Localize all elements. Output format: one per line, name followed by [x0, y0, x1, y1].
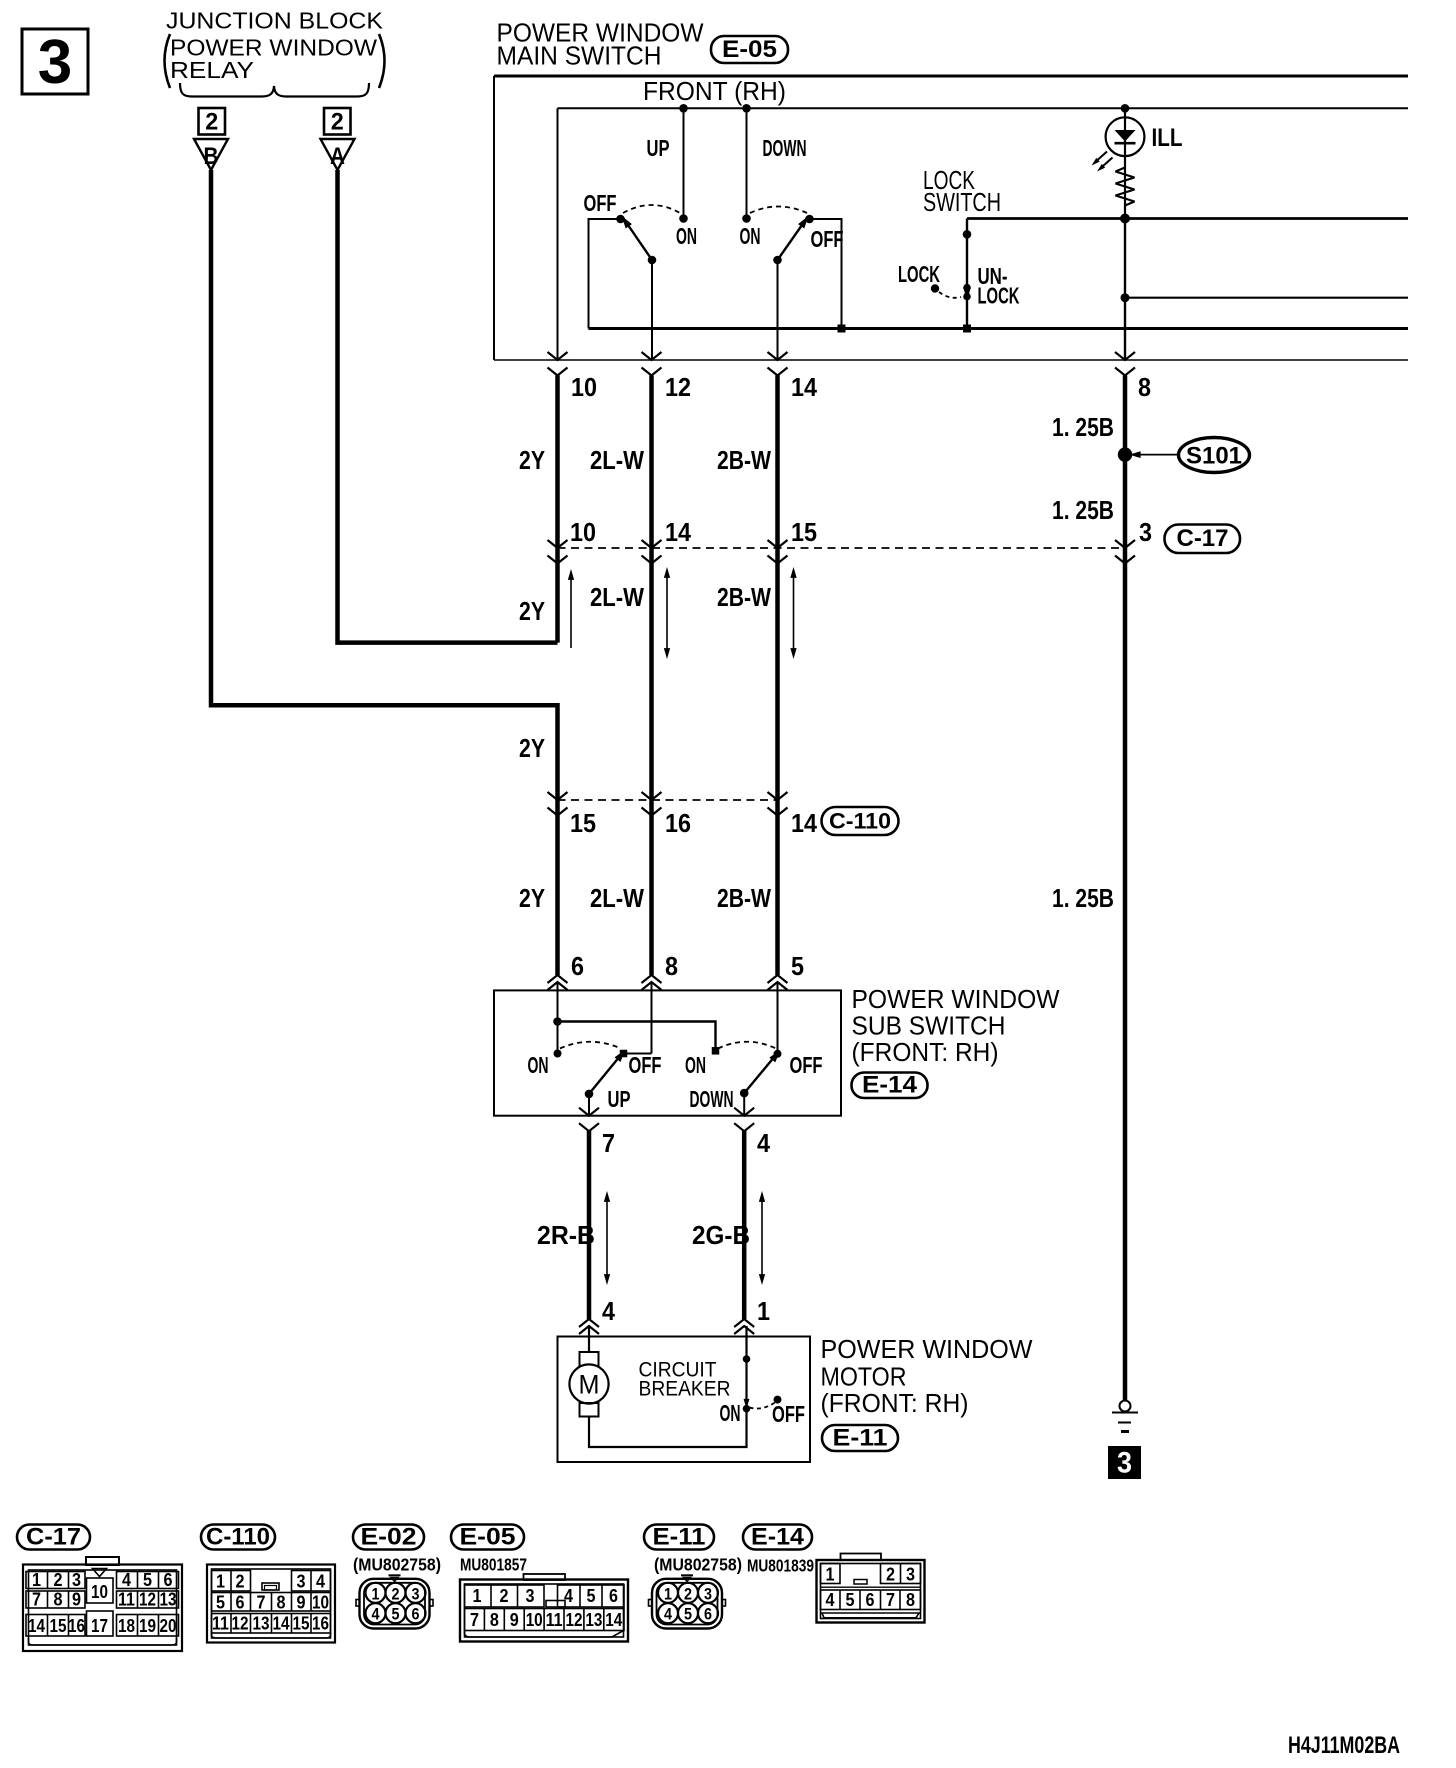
svg-text:15: 15 [570, 808, 596, 838]
svg-text:MOTOR: MOTOR [821, 1362, 907, 1392]
svg-text:C-110: C-110 [829, 809, 891, 834]
svg-text:4: 4 [757, 1128, 770, 1158]
svg-text:8: 8 [277, 1593, 286, 1613]
sub junction dot [553, 1017, 562, 1026]
svg-text:(MU802758): (MU802758) [654, 1555, 742, 1575]
sub exit chevrons [579, 1108, 599, 1132]
svg-text:9: 9 [297, 1593, 306, 1613]
svg-text:MU801839: MU801839 [747, 1556, 814, 1576]
C-17 inline connector dashed line [558, 547, 1126, 549]
svg-text:3: 3 [526, 1586, 535, 1606]
svg-text:11: 11 [118, 1590, 135, 1610]
C-110 crossing chevron [548, 792, 568, 816]
lock switch feed line [967, 217, 1408, 220]
svg-text:1: 1 [32, 1570, 41, 1590]
svg-text:4: 4 [316, 1572, 325, 1592]
ground symbol [1120, 1401, 1131, 1412]
S101 pointer [1136, 454, 1179, 456]
svg-text:ON: ON [528, 1052, 549, 1078]
svg-text:5: 5 [392, 1605, 400, 1624]
left switch arm [628, 225, 652, 260]
lock switch contacts [963, 284, 971, 292]
svg-text:8: 8 [490, 1610, 499, 1630]
svg-text:10: 10 [570, 517, 596, 547]
svg-text:15: 15 [293, 1614, 310, 1634]
motor brush bottom [580, 1403, 599, 1417]
svg-text:ON: ON [676, 223, 697, 249]
svg-text:ON: ON [685, 1052, 706, 1078]
svg-text:MU801857: MU801857 [460, 1555, 527, 1575]
C-110 middle tab [262, 1583, 279, 1590]
svg-text:MAIN SWITCH: MAIN SWITCH [497, 41, 662, 71]
up arrow 2Y [570, 578, 572, 648]
C-110 row2/3 grid [212, 1593, 331, 1612]
svg-text:(FRONT: RH): (FRONT: RH) [852, 1037, 999, 1067]
svg-text:JUNCTION BLOCK: JUNCTION BLOCK [166, 8, 384, 34]
svg-text:2Y: 2Y [519, 445, 545, 475]
svg-text:2: 2 [331, 109, 344, 136]
ILL lamp wire top [1124, 108, 1126, 218]
svg-text:5: 5 [587, 1586, 596, 1606]
E-14 connector body [841, 1554, 882, 1561]
svg-text:13: 13 [160, 1590, 177, 1610]
E-14 row2 cells [821, 1590, 921, 1610]
E-14 row1 cells [821, 1564, 841, 1584]
svg-text:8: 8 [665, 951, 678, 981]
C-17 middle cells [87, 1578, 114, 1603]
E-05 skirt [465, 1631, 624, 1638]
E-05 capsule top [711, 36, 788, 63]
LED triangle [1115, 130, 1136, 142]
svg-text:12: 12 [665, 372, 691, 402]
svg-text:DOWN: DOWN [763, 135, 807, 161]
pin 12 exit chevron [642, 352, 662, 376]
svg-text:7: 7 [470, 1610, 479, 1630]
svg-text:7: 7 [602, 1128, 615, 1158]
svg-text:13: 13 [585, 1610, 602, 1630]
sub left OFF contact [624, 1053, 652, 1055]
svg-text:4: 4 [602, 1296, 615, 1326]
main switch box bottom edge [494, 359, 1408, 361]
svg-text:11: 11 [546, 1610, 563, 1630]
svg-text:15: 15 [50, 1616, 67, 1636]
svg-text:OFF: OFF [772, 1401, 805, 1427]
svg-text:1. 25B: 1. 25B [1052, 883, 1114, 913]
svg-text:3: 3 [704, 1584, 712, 1603]
svg-text:2Y: 2Y [519, 733, 545, 763]
svg-text:14: 14 [791, 808, 817, 838]
E-05 row1 cells [465, 1585, 545, 1607]
svg-text:1: 1 [216, 1572, 225, 1592]
main switch box top edge [494, 75, 1408, 78]
sub left arm [589, 1059, 618, 1094]
LED cathode bar [1115, 142, 1136, 145]
switch common bus (thick) [589, 327, 1409, 330]
C-17 crossing chevron [1115, 540, 1135, 564]
svg-text:3: 3 [1117, 1447, 1132, 1480]
svg-text:1: 1 [473, 1586, 482, 1606]
resistor [1116, 168, 1135, 211]
ILL wire to pin8 [1124, 219, 1126, 361]
svg-text:E-05: E-05 [722, 36, 777, 63]
motor circle M [569, 1364, 608, 1403]
svg-text:2L-W: 2L-W [590, 445, 644, 475]
svg-text:16: 16 [68, 1616, 85, 1636]
S101 junction dot [1118, 447, 1132, 461]
svg-text:ON: ON [740, 223, 761, 249]
breaker dashed arc [750, 1403, 776, 1409]
lock dashed arc [939, 292, 961, 298]
svg-text:9: 9 [510, 1610, 519, 1630]
svg-text:2G-B: 2G-B [692, 1220, 750, 1250]
svg-text:16: 16 [312, 1614, 329, 1634]
svg-text:7: 7 [32, 1590, 41, 1610]
lock switch wire [966, 219, 968, 329]
pin 14 exit chevron [768, 352, 788, 376]
svg-text:1: 1 [757, 1296, 770, 1326]
right switch dashed arc [750, 207, 807, 214]
svg-text:2: 2 [392, 1584, 400, 1603]
svg-text:12: 12 [139, 1590, 156, 1610]
svg-text:E-14: E-14 [751, 1524, 805, 1551]
S101 ellipse [1179, 438, 1250, 473]
curly brace [180, 83, 369, 97]
wire 2R-B [587, 1131, 592, 1319]
svg-text:3: 3 [297, 1572, 306, 1592]
svg-text:4: 4 [122, 1570, 131, 1590]
breaker OFF contact [774, 1396, 782, 1404]
C-110 skirt [212, 1633, 331, 1638]
updown arrow 2L-W [666, 576, 668, 650]
svg-text:ILL: ILL [1152, 124, 1183, 152]
svg-text:C-17: C-17 [1177, 525, 1229, 552]
svg-text:OFF: OFF [811, 226, 844, 252]
svg-text:2Y: 2Y [519, 883, 545, 913]
C-17 skirt [29, 1638, 177, 1645]
E-11 capsule [822, 1425, 898, 1451]
motor right wire [745, 1326, 747, 1404]
svg-text:7: 7 [257, 1593, 266, 1613]
svg-text:13: 13 [253, 1614, 270, 1634]
svg-text:E-14: E-14 [862, 1072, 918, 1099]
svg-text:(MU802758): (MU802758) [353, 1555, 441, 1575]
svg-text:3: 3 [412, 1584, 420, 1603]
svg-text:FRONT (RH): FRONT (RH) [643, 76, 786, 106]
svg-text:12: 12 [566, 1610, 583, 1630]
svg-text:ON: ON [720, 1400, 741, 1426]
svg-text:6: 6 [571, 951, 584, 981]
terminal triangle A [321, 139, 355, 170]
LOCK position dot [931, 284, 939, 292]
svg-text:6: 6 [236, 1593, 245, 1613]
node resistor-bottom [1120, 214, 1130, 224]
motor left wire [588, 1326, 590, 1352]
svg-text:1: 1 [664, 1584, 672, 1603]
svg-text:10: 10 [526, 1610, 543, 1630]
sub switch box [494, 990, 841, 1115]
svg-text:8: 8 [54, 1590, 63, 1610]
terminal triangle B [194, 139, 228, 170]
svg-text:2L-W: 2L-W [590, 582, 644, 612]
svg-text:2: 2 [205, 109, 218, 136]
svg-text:1. 25B: 1. 25B [1052, 495, 1114, 525]
svg-text:2: 2 [54, 1570, 63, 1590]
E-05 row2 cells [465, 1609, 625, 1631]
left switch dashed arc [623, 205, 680, 213]
E-11 connector body [652, 1579, 722, 1629]
E-05 mid tab [546, 1601, 565, 1608]
svg-text:2L-W: 2L-W [590, 883, 644, 913]
svg-text:6: 6 [164, 1570, 173, 1590]
sub right OFF contact [774, 1050, 782, 1058]
C-17 crossing chevron [548, 540, 568, 564]
svg-text:14: 14 [605, 1610, 622, 1630]
LED emission arrows [1098, 152, 1108, 161]
C-17 crossing chevron [768, 540, 788, 564]
pin 10 exit chevron [548, 352, 568, 376]
sub left ON contact [554, 1050, 562, 1058]
connector 2B square [199, 108, 226, 135]
wire 2L-W trunk [649, 376, 654, 976]
C-110 capsule [822, 807, 899, 835]
svg-text:2R-B: 2R-B [537, 1220, 595, 1250]
right switch arm [778, 225, 803, 260]
svg-text:20: 20 [160, 1616, 177, 1636]
svg-text:DOWN: DOWN [690, 1086, 734, 1112]
big parentheses [165, 34, 171, 88]
motor bottom link [589, 1409, 747, 1447]
sub moving wires [588, 1094, 590, 1116]
svg-text:4: 4 [826, 1590, 835, 1610]
branch line y297 [1125, 297, 1408, 299]
svg-text:11: 11 [212, 1614, 229, 1634]
sub right dashed arc [718, 1042, 776, 1049]
sub wires into box [557, 982, 559, 1054]
sub left dashed arc [560, 1042, 621, 1049]
sub switch entry chevrons [548, 975, 568, 990]
svg-text:4: 4 [564, 1586, 573, 1606]
updown arrow 2B-W [793, 576, 795, 650]
C-110 bottom capsule [201, 1525, 275, 1550]
svg-text:14: 14 [665, 517, 691, 547]
UP contact wire [683, 108, 685, 218]
svg-text:UP: UP [647, 135, 670, 161]
svg-text:2: 2 [500, 1586, 509, 1606]
svg-text:4: 4 [664, 1605, 672, 1624]
svg-text:2B-W: 2B-W [717, 445, 771, 475]
svg-text:14: 14 [273, 1614, 290, 1634]
E-14 capsule [852, 1073, 928, 1099]
svg-text:18: 18 [118, 1616, 135, 1636]
svg-text:C-17: C-17 [26, 1524, 81, 1551]
svg-text:C-110: C-110 [206, 1524, 270, 1551]
svg-text:8: 8 [1138, 372, 1151, 402]
svg-text:B: B [204, 143, 219, 170]
svg-text:2: 2 [886, 1565, 895, 1585]
svg-text:15: 15 [791, 517, 817, 547]
E-14 bottom capsule [743, 1525, 812, 1550]
C-110 crossing chevron [642, 792, 662, 816]
motor box [558, 1337, 811, 1463]
wire B [211, 170, 558, 975]
svg-text:10: 10 [571, 372, 597, 402]
sub right arm [744, 1059, 773, 1094]
page index box 3 [22, 29, 88, 94]
svg-text:5: 5 [216, 1593, 225, 1613]
motor entry chevrons [579, 1319, 599, 1334]
svg-text:SWITCH: SWITCH [923, 187, 1001, 217]
svg-text:2: 2 [684, 1584, 692, 1603]
svg-text:10: 10 [312, 1593, 329, 1613]
svg-text:2B-W: 2B-W [717, 883, 771, 913]
svg-text:M: M [579, 1370, 600, 1400]
svg-text:E-02: E-02 [361, 1524, 417, 1551]
svg-text:16: 16 [665, 808, 691, 838]
svg-text:19: 19 [139, 1616, 156, 1636]
right switch OFF leg [810, 219, 842, 329]
C-110 row1 cells [212, 1571, 251, 1592]
E-02 bottom capsule [353, 1525, 424, 1550]
main switch box left edge [493, 76, 495, 360]
svg-text:2: 2 [236, 1572, 245, 1592]
connector 2A square [324, 108, 351, 135]
wire 1.25B trunk [1123, 376, 1128, 1401]
svg-text:LOCK: LOCK [898, 261, 940, 287]
wire 2B-W trunk [775, 376, 780, 976]
svg-text:1. 25B: 1. 25B [1052, 412, 1114, 442]
svg-text:5: 5 [846, 1590, 855, 1610]
svg-text:5: 5 [143, 1570, 152, 1590]
ground ref box 3 [1108, 1446, 1141, 1479]
left switch moving wire [651, 260, 653, 360]
C-17 crossing chevron [642, 540, 662, 564]
right switch moving wire [777, 260, 779, 360]
svg-text:OFF: OFF [790, 1052, 823, 1078]
E-11 bottom capsule [644, 1525, 714, 1550]
C-17 bottom capsule [17, 1525, 90, 1550]
svg-text:3: 3 [906, 1565, 915, 1585]
svg-text:1: 1 [372, 1584, 380, 1603]
svg-text:SUB SWITCH: SUB SWITCH [852, 1011, 1006, 1041]
E-05 connector body [524, 1574, 566, 1580]
breaker ON contact [743, 1405, 751, 1413]
svg-text:4: 4 [372, 1605, 380, 1624]
svg-text:9: 9 [72, 1590, 81, 1610]
svg-text:BREAKER: BREAKER [639, 1378, 731, 1401]
C-110 connector body [207, 1565, 335, 1643]
pin 8 exit chevron [1115, 352, 1135, 376]
svg-text:H4J11M02BA: H4J11M02BA [1288, 1732, 1400, 1759]
svg-text:POWER WINDOW: POWER WINDOW [821, 1334, 1033, 1364]
svg-text:OFF: OFF [584, 190, 617, 216]
wire 2G-B [742, 1131, 747, 1319]
wire pin10 inside box [557, 108, 559, 360]
svg-text:3: 3 [38, 28, 72, 97]
svg-text:S101: S101 [1186, 443, 1242, 470]
E-02 connector body [360, 1579, 430, 1629]
svg-text:10: 10 [91, 1582, 108, 1602]
svg-text:6: 6 [609, 1586, 618, 1606]
svg-text:6: 6 [412, 1605, 420, 1624]
svg-text:2Y: 2Y [519, 596, 545, 626]
left switch OFF leg [589, 219, 621, 329]
svg-text:(FRONT: RH): (FRONT: RH) [821, 1388, 969, 1418]
updown arrow 2G-B [761, 1200, 763, 1276]
svg-text:12: 12 [232, 1614, 249, 1634]
wire A horizontal [338, 170, 558, 643]
C-17 connector body [86, 1557, 119, 1565]
DOWN contact wire [746, 108, 748, 218]
svg-text:LOCK: LOCK [978, 283, 1020, 309]
svg-text:E-05: E-05 [460, 1524, 516, 1551]
svg-text:5: 5 [791, 951, 804, 981]
svg-text:OFF: OFF [629, 1052, 662, 1078]
svg-text:POWER WINDOW: POWER WINDOW [852, 984, 1060, 1014]
E-14 skirt [822, 1613, 919, 1618]
svg-text:8: 8 [906, 1590, 915, 1610]
svg-text:6: 6 [704, 1605, 712, 1624]
svg-text:1: 1 [826, 1565, 835, 1585]
C-110 inline connector dashed line [558, 799, 778, 801]
svg-text:7: 7 [886, 1590, 895, 1610]
svg-text:14: 14 [791, 372, 817, 402]
E-05 bottom capsule [451, 1525, 524, 1550]
svg-text:RELAY: RELAY [170, 57, 254, 83]
svg-text:5: 5 [684, 1605, 692, 1624]
svg-text:A: A [330, 143, 345, 170]
sub cross link [558, 1022, 716, 1051]
svg-text:17: 17 [91, 1616, 108, 1636]
svg-text:3: 3 [72, 1570, 81, 1590]
svg-text:6: 6 [866, 1590, 875, 1610]
C-110 crossing chevron [768, 792, 788, 816]
C-17 capsule [1165, 525, 1241, 554]
svg-text:E-11: E-11 [653, 1524, 706, 1551]
svg-text:3: 3 [1139, 517, 1152, 547]
updown arrow 2R-B [606, 1200, 608, 1276]
LED ILL circle [1106, 117, 1145, 156]
wire 2Y pin10 to A-corner [555, 376, 560, 643]
inner bus line [558, 107, 1409, 109]
svg-text:E-11: E-11 [833, 1425, 888, 1452]
svg-text:2B-W: 2B-W [717, 582, 771, 612]
motor brush top [580, 1352, 599, 1367]
E-14 mid tab [854, 1580, 867, 1585]
svg-text:UP: UP [608, 1086, 631, 1112]
svg-text:14: 14 [28, 1616, 45, 1636]
